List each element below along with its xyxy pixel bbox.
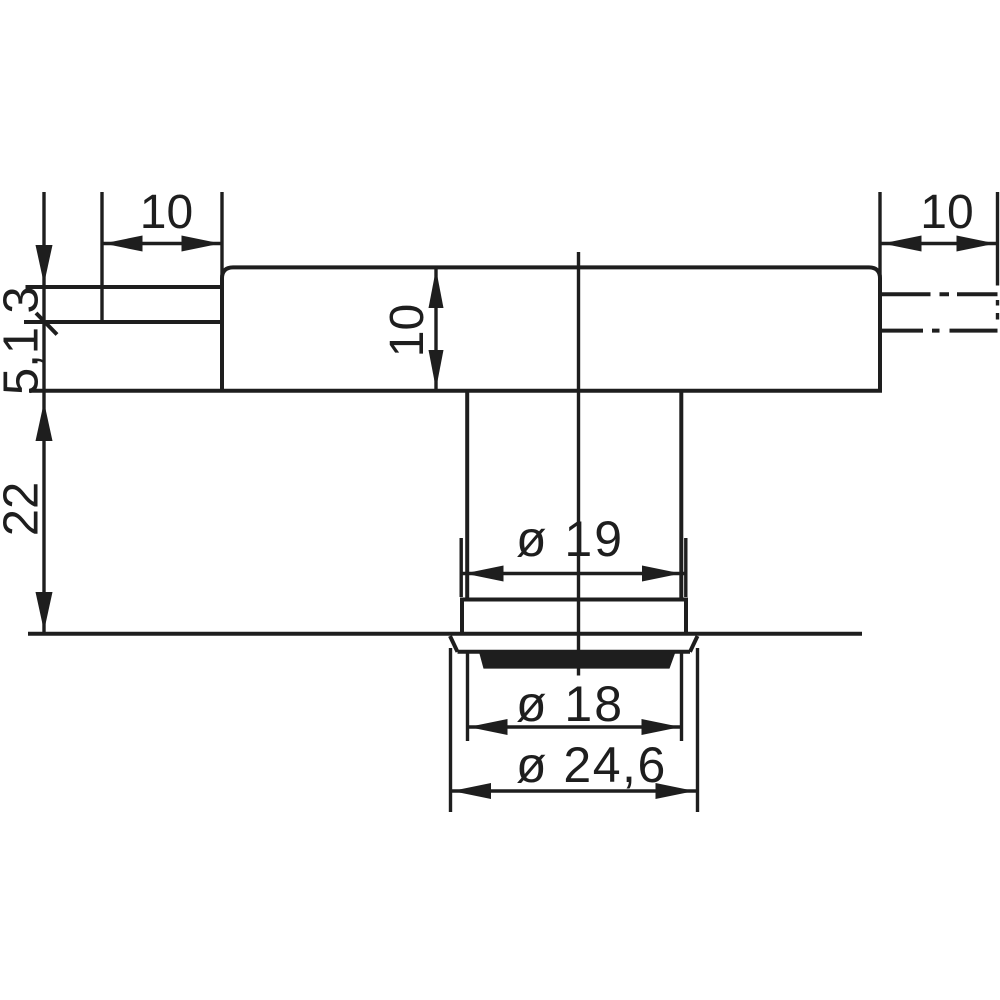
svg-text:3: 3 <box>0 286 49 313</box>
svg-text:ø 24,6: ø 24,6 <box>516 737 667 793</box>
svg-text:ø 19: ø 19 <box>516 511 624 567</box>
svg-text:10: 10 <box>920 186 973 239</box>
svg-text:ø 18: ø 18 <box>516 676 624 732</box>
svg-text:10: 10 <box>140 186 193 239</box>
svg-text:22: 22 <box>0 482 49 537</box>
svg-text:5,1: 5,1 <box>0 327 49 395</box>
svg-text:10: 10 <box>381 304 434 357</box>
